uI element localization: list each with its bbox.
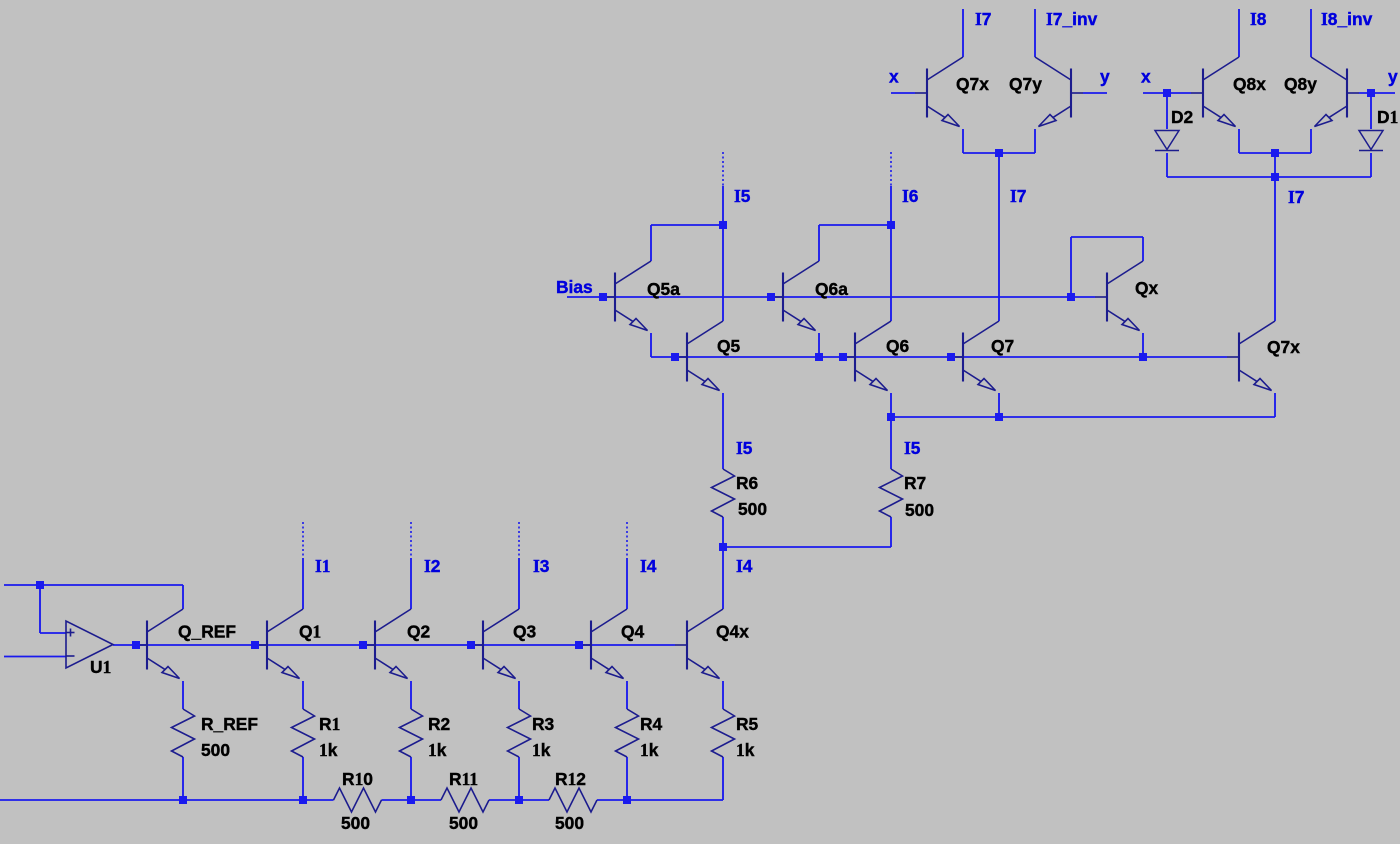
wire Q6a collector up (818, 225, 820, 261)
wire (dangling, dotted) I4 stub (626, 522, 628, 558)
wire I7 collector of Q7x (962, 9, 964, 57)
svg-text:Q5: Q5 (717, 336, 741, 356)
wire collector wire x=303 (302, 558, 304, 609)
resistor R2 (400, 709, 423, 757)
wire emitter bus y417 (891, 416, 1275, 418)
svg-text:R7: R7 (904, 473, 926, 493)
svg-text:D1: D1 (1377, 107, 1398, 127)
wire collector wire x=519 (518, 558, 520, 609)
junction y-D1 node (1367, 89, 1375, 97)
svg-text:I3: I3 (533, 556, 550, 576)
wire opamp output (113, 644, 135, 646)
resistor R_REF (172, 709, 195, 757)
wire Qx diode-connect top (1071, 236, 1143, 238)
wire bottom base bus (135, 644, 675, 646)
junction x-D2 node (1163, 89, 1171, 97)
svg-text:I5: I5 (904, 438, 921, 458)
wire emitter to resistor x=303 (302, 681, 304, 709)
wire R6 bottom to node (722, 517, 724, 547)
wire Q8 pair tail rail (1239, 152, 1311, 154)
wire Bias bus (567, 296, 1095, 298)
wire (dangling, dotted) I6 stub (890, 152, 892, 186)
svg-text:R6: R6 (736, 473, 759, 493)
wire Q7y emitter down (1034, 129, 1036, 153)
wire D1 anode (1370, 93, 1372, 129)
wire Q8y emitter down (1310, 129, 1312, 153)
svg-text:I5: I5 (736, 438, 753, 458)
svg-text:1k: 1k (428, 740, 447, 760)
junction Q5a base (599, 293, 607, 301)
svg-text:Q4: Q4 (621, 622, 645, 642)
svg-text:U1: U1 (90, 657, 111, 677)
wire Q_REF collector up (182, 585, 184, 609)
svg-text:R4: R4 (640, 714, 663, 734)
wire net I6 vertical (890, 186, 892, 321)
wire Q6 emitter to R7 (890, 393, 892, 469)
wire Q5a collector up (650, 225, 652, 261)
resistor R5 (712, 709, 735, 757)
svg-text:I6: I6 (902, 186, 919, 206)
svg-text:Q5a: Q5a (647, 279, 680, 299)
junction Q3 base (467, 641, 475, 649)
svg-text:R11: R11 (449, 769, 478, 789)
wire x to Q7x base (891, 92, 915, 94)
wire x to Q8x base (1143, 92, 1191, 94)
wire Q7 pair tail rail (963, 152, 1035, 154)
wire collector wire x=627 (626, 558, 628, 609)
junction node I4 (719, 543, 727, 551)
junction rail R4 (623, 796, 631, 804)
wire I8 collector of Q8x (1238, 9, 1240, 57)
svg-text:R_REF: R_REF (201, 714, 258, 734)
transistor Q1 (255, 609, 303, 679)
svg-text:Q_REF: Q_REF (178, 622, 236, 642)
junction Q6a emitter node (815, 353, 823, 361)
junction Q5 base (671, 353, 679, 361)
junction node I6 top (887, 221, 895, 229)
svg-text:500: 500 (738, 499, 767, 519)
wire D2 anode (1166, 93, 1168, 129)
resistor R12 (549, 788, 597, 812)
resistor R3 (508, 709, 531, 757)
wire Q7 emitter down (998, 393, 1000, 417)
junction Q8 tail node (1271, 149, 1279, 157)
wire I7_inv collector of Q7y (1034, 9, 1036, 57)
transistor Q7 (951, 321, 999, 391)
wire resistor to rail x=519 (518, 757, 520, 800)
svg-text:I2: I2 (424, 556, 440, 576)
svg-text:Qx: Qx (1135, 278, 1159, 298)
junction Q7 emitter node (995, 413, 1003, 421)
wire resistor to rail x=303 (302, 757, 304, 800)
transistor Qx (1095, 261, 1143, 331)
svg-text:I1: I1 (315, 556, 330, 576)
wire (dangling, dotted) I2 stub (410, 522, 412, 558)
svg-text:I7: I7 (1010, 186, 1026, 206)
wire Q5 emitter to R6 (722, 393, 724, 469)
wire opamp -input wire (4, 656, 66, 658)
junction Qx diode-connect (1067, 293, 1075, 301)
svg-text:I8_inv: I8_inv (1321, 9, 1373, 29)
svg-text:500: 500 (905, 500, 934, 520)
wire emitter to resistor x=627 (626, 681, 628, 709)
svg-text:Q4x: Q4x (716, 622, 749, 642)
wire Qx emitter down (1142, 333, 1144, 357)
junction Qx emitter node (1139, 353, 1147, 361)
junction Q1 base (251, 641, 259, 649)
junction rail R2 (407, 796, 415, 804)
resistor R4 (616, 709, 639, 757)
wire Q5a emitter down (650, 333, 652, 357)
svg-text:Bias: Bias (556, 277, 593, 297)
wire mid Q7x emitter down (1274, 393, 1276, 417)
wire R_REF to rail (182, 757, 184, 800)
svg-text:I8: I8 (1250, 9, 1267, 29)
wire emitter to resistor x=723 (722, 681, 724, 709)
wire Q6a collector to I6 (819, 224, 891, 226)
svg-text:R2: R2 (428, 714, 450, 734)
wire feedback top wire (4, 584, 183, 586)
wire resistor to rail x=627 (626, 757, 628, 800)
svg-text:R12: R12 (555, 769, 586, 789)
wire net I7 down to mid Q7x collector (1274, 177, 1276, 321)
svg-text:Q6: Q6 (886, 336, 910, 356)
wire Q8y base to y (1359, 92, 1395, 94)
transistor Q5 (675, 321, 723, 391)
junction Q6 emitter node (887, 413, 895, 421)
wire Qx collector up (1142, 237, 1144, 261)
transistor Q6a (771, 261, 819, 331)
svg-text:Q7x: Q7x (956, 74, 989, 94)
wire second base bus (651, 356, 1227, 358)
svg-text:I4: I4 (736, 556, 753, 576)
wire D2 cathode down (1166, 153, 1168, 177)
transistor Q8x (1191, 57, 1239, 127)
wire I8_inv collector of Q8y (1310, 9, 1312, 57)
wire Q_REF emitter down (182, 681, 184, 709)
svg-text:Q6a: Q6a (815, 279, 848, 299)
wire Q8x emitter down (1238, 129, 1240, 153)
svg-text:y: y (1388, 67, 1398, 87)
wire tail node down (1274, 153, 1276, 177)
diode D1 (1359, 131, 1383, 151)
wire R7 node to R6 node (723, 546, 891, 548)
svg-text:500: 500 (201, 740, 230, 760)
svg-text:500: 500 (449, 813, 478, 833)
wire Q7x emitter down (962, 129, 964, 153)
svg-text:R1: R1 (319, 714, 340, 734)
transistor Q7x (top pair) (915, 57, 963, 127)
wire diode bottom rail (1167, 176, 1371, 178)
junction Q2 base (359, 641, 367, 649)
svg-text:Q8x: Q8x (1233, 74, 1266, 94)
wire resistor to rail x=723 (722, 757, 724, 800)
wire ground rail segment (489, 799, 549, 801)
transistor Q2 (363, 609, 411, 679)
transistor Q3 (471, 609, 519, 679)
svg-text:R5: R5 (736, 714, 759, 734)
svg-text:I7: I7 (1288, 187, 1304, 207)
junction opamp output node (132, 641, 140, 649)
junction Q6a base (767, 293, 775, 301)
transistor Q_REF (135, 609, 183, 679)
svg-text:500: 500 (341, 813, 370, 833)
wire (dangling, dotted) I1 stub (302, 522, 304, 558)
wire (dangling, dotted) I5 stub (722, 152, 724, 186)
junction diode rail node (1271, 173, 1279, 181)
junction Q6 base (839, 353, 847, 361)
svg-text:Q2: Q2 (407, 622, 430, 642)
svg-text:I4: I4 (640, 556, 657, 576)
transistor Q5a (603, 261, 651, 331)
svg-text:1k: 1k (532, 740, 551, 760)
resistor R11 (441, 788, 489, 812)
wire ground rail segment (382, 799, 442, 801)
wire net I4 down to Q4x collector (722, 547, 724, 609)
svg-text:I7_inv: I7_inv (1046, 9, 1098, 29)
svg-text:y: y (1100, 67, 1110, 87)
wire Q6a emitter down (818, 333, 820, 357)
wire Q5a collector to I5 (651, 224, 723, 226)
resistor R6 (712, 469, 735, 517)
svg-text:x: x (1141, 67, 1151, 87)
svg-text:x: x (889, 67, 899, 87)
svg-text:Q8y: Q8y (1284, 74, 1317, 94)
transistor Q8y (1311, 57, 1359, 127)
junction feedback node (36, 581, 44, 589)
junction rail R_REF (179, 796, 187, 804)
junction node I5 top (719, 221, 727, 229)
svg-text:Q3: Q3 (513, 622, 537, 642)
wire net I7 tail down to Q7 collector (998, 153, 1000, 321)
diode D2 (1155, 131, 1179, 151)
junction Q4 base (575, 641, 583, 649)
svg-text:R3: R3 (532, 714, 555, 734)
wire emitter to resistor x=519 (518, 681, 520, 709)
svg-text:1k: 1k (736, 740, 755, 760)
svg-text:Q7y: Q7y (1009, 74, 1042, 94)
wire D1 cathode down (1370, 153, 1372, 177)
svg-text:500: 500 (555, 813, 584, 833)
svg-text:Q1: Q1 (299, 622, 321, 642)
wire Qx diode-connect down to Bias bus (1070, 237, 1072, 297)
transistor Q7y (top pair) (1035, 57, 1083, 127)
junction rail R3 (515, 796, 523, 804)
svg-text:D2: D2 (1171, 107, 1193, 127)
resistor R7 (880, 469, 903, 517)
junction Q7 base (947, 353, 955, 361)
transistor Q6 (843, 321, 891, 391)
wire y to Q7y base (1083, 92, 1107, 94)
wire resistor to rail x=411 (410, 757, 412, 800)
wire net I5 vertical (722, 186, 724, 321)
junction rail R1 (299, 796, 307, 804)
op-amp U1 (66, 621, 113, 668)
resistor R1 (292, 709, 315, 757)
svg-text:Q7x: Q7x (1267, 337, 1300, 357)
transistor Q4 (579, 609, 627, 679)
wire feedback down to +input (39, 585, 41, 633)
svg-text:1k: 1k (319, 740, 338, 760)
wire (dangling, dotted) I3 stub (518, 522, 520, 558)
wire ground rail segment (0, 799, 334, 801)
wire ground rail segment (597, 799, 723, 801)
wire to opamp +input (40, 632, 66, 634)
svg-text:R10: R10 (342, 769, 373, 789)
transistor Q4x (675, 609, 723, 679)
svg-text:I7: I7 (975, 9, 991, 29)
wire collector wire x=411 (410, 558, 412, 609)
resistor R10 (334, 788, 382, 812)
wire emitter to resistor x=411 (410, 681, 412, 709)
wire R7 bottom down (890, 517, 892, 547)
svg-text:Q7: Q7 (991, 336, 1014, 356)
svg-text:1k: 1k (640, 740, 659, 760)
transistor Q7x (mirror) (1227, 321, 1275, 391)
junction Q7 pair tail node (995, 149, 1003, 157)
svg-text:I5: I5 (734, 186, 751, 206)
